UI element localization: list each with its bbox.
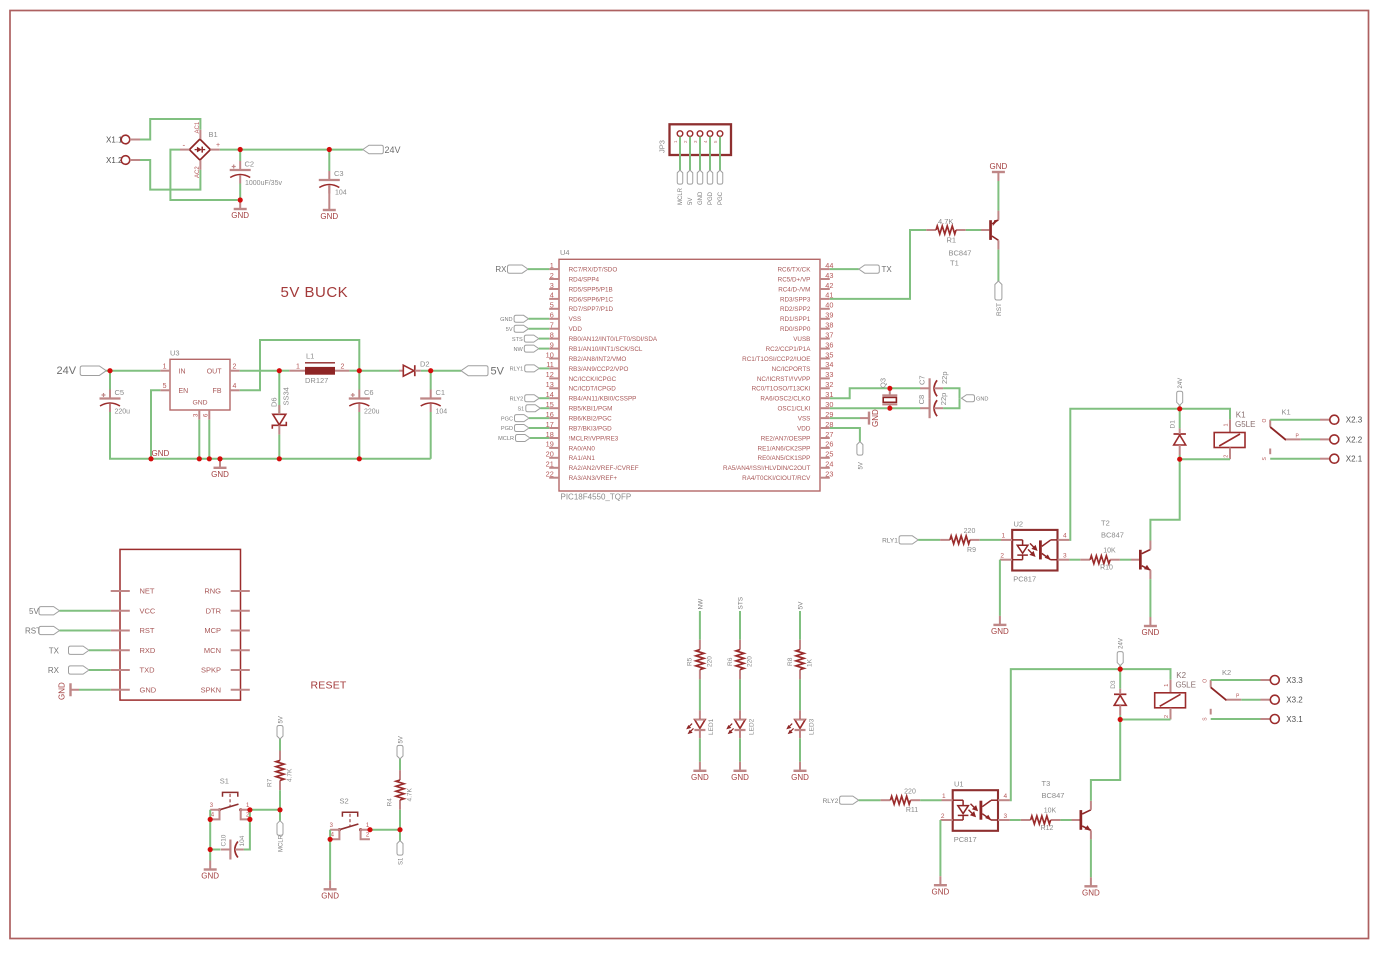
svg-text:LED1: LED1	[708, 718, 715, 735]
flag RLY2 bubble	[840, 796, 859, 804]
svg-text:S2: S2	[340, 796, 349, 805]
svg-text:RC4/D-/VM: RC4/D-/VM	[778, 286, 810, 293]
junction pin3/rail	[197, 456, 202, 461]
svg-text:IN: IN	[179, 368, 186, 375]
svg-text:R5: R5	[687, 657, 694, 666]
flag TX bubble	[859, 265, 880, 273]
svg-text:RD6/SPP6/P1C: RD6/SPP6/P1C	[569, 296, 614, 303]
resistor R10	[1080, 556, 1120, 564]
flag 5V bubble	[514, 325, 529, 332]
wire PGC flag to pin	[529, 417, 549, 419]
capacitor C7	[920, 378, 943, 398]
ground below T2	[1142, 617, 1160, 637]
wire 24V net bridge output	[220, 149, 363, 151]
svg-text:GND: GND	[192, 400, 207, 407]
transistor T2 (BC847)	[1131, 541, 1151, 580]
U4 pin 8 (RB0/AN12/INT0/LFT0/SDI/SDA)	[549, 338, 559, 340]
flag 5V above R7	[277, 726, 283, 740]
svg-text:RB6/KBI2/PGC: RB6/KBI2/PGC	[569, 416, 612, 423]
svg-text:GND: GND	[990, 162, 1008, 171]
optocoupler U1 body	[953, 790, 998, 831]
JP3 pad 3	[697, 131, 703, 137]
wire STS to R6	[739, 611, 741, 640]
wire crystal to C7	[890, 387, 921, 389]
wire TX to RXD	[89, 649, 111, 651]
svg-text:43: 43	[825, 271, 833, 280]
U4 pin 12 (NC/ICCK/ICPGC)	[549, 377, 559, 379]
capacitor C2 (polarized) plus sign	[232, 165, 236, 169]
LED LED2 emission arrows	[727, 724, 733, 734]
wire K2 P to X3.2	[1241, 699, 1260, 701]
capacitor C10	[221, 840, 244, 860]
wire D3 cathode	[1119, 669, 1121, 689]
wire S2 pins3-4 to ground	[329, 830, 331, 881]
svg-text:3: 3	[1063, 553, 1067, 560]
svg-text:MCN: MCN	[204, 646, 221, 655]
svg-text:PGD: PGD	[708, 191, 714, 205]
svg-text:2: 2	[1164, 715, 1170, 718]
junction C6/rail	[357, 456, 362, 461]
wire X1.1 to bridge AC1	[140, 119, 200, 140]
flag MCLR below JP3	[677, 170, 683, 184]
U3 pin 3 (GND)	[198, 410, 200, 420]
svg-text:PIC18F4550_TQFP: PIC18F4550_TQFP	[561, 493, 632, 502]
svg-text:PC817: PC817	[1013, 575, 1036, 584]
wire S1 to ground	[209, 850, 211, 861]
wire RLY2 flag to pin	[539, 397, 549, 399]
svg-text:12: 12	[546, 370, 554, 379]
svg-text:RLY1: RLY1	[510, 367, 524, 373]
bridge B1 pin AC1	[199, 130, 201, 139]
junction S1 pin4	[208, 817, 213, 822]
svg-text:R8: R8	[787, 657, 794, 666]
svg-text:-: -	[183, 141, 186, 150]
svg-text:42: 42	[825, 281, 833, 290]
svg-text:L1: L1	[306, 352, 314, 361]
svg-text:2: 2	[1224, 455, 1230, 458]
svg-text:2: 2	[1000, 553, 1004, 560]
svg-text:39: 39	[825, 311, 833, 320]
svg-text:8: 8	[550, 330, 554, 339]
wire K1 P to X2.2	[1301, 438, 1320, 440]
flag 24V buck bubble	[80, 366, 106, 376]
wire 5V to VCC	[60, 610, 111, 612]
svg-text:DR127: DR127	[305, 376, 328, 385]
svg-text:10K: 10K	[1044, 808, 1057, 815]
wire K1 S to X2.1	[1270, 458, 1320, 460]
ground below S2	[321, 880, 339, 900]
wire T2 emitter to ground	[1149, 579, 1151, 617]
wire K2 pin2 to rail	[1120, 719, 1170, 721]
svg-text:NW: NW	[513, 347, 523, 353]
U4 pin 6 (VSS)	[549, 318, 559, 320]
U4 pin 15 (RB5/KBI1/PGM)	[549, 407, 559, 409]
svg-text:VUSB: VUSB	[793, 336, 810, 343]
U4 pin 33 (NC/!ICRST!/!VVPP)	[820, 377, 830, 379]
ground below T3	[1082, 877, 1100, 897]
wire JP3 pin 2	[689, 137, 691, 171]
svg-text:R12: R12	[1041, 825, 1054, 832]
switch S2 right contact bracket (pins 1-2)	[361, 830, 370, 840]
svg-text:220u: 220u	[115, 409, 131, 416]
ground below C2	[231, 200, 249, 220]
resistor R7	[276, 751, 284, 791]
module pin MCN	[231, 649, 250, 651]
connector X3.1 pin	[1261, 718, 1271, 720]
svg-text:GND: GND	[152, 449, 170, 458]
svg-text:FB: FB	[213, 388, 222, 395]
svg-text:6: 6	[550, 311, 554, 320]
junction S2 pin4	[328, 837, 333, 842]
svg-text:22: 22	[546, 470, 554, 479]
svg-text:R4: R4	[387, 798, 394, 807]
svg-text:5V: 5V	[798, 601, 805, 610]
junction crystal bottom	[887, 406, 892, 411]
svg-text:25: 25	[825, 450, 833, 459]
flag 5V above R4	[397, 745, 403, 759]
ground below LED3	[791, 762, 809, 782]
wire U3 FB to L1 output	[240, 340, 360, 390]
svg-text:3: 3	[330, 823, 334, 829]
junction rail ground symbol	[217, 456, 222, 461]
transistor T1 (BC847, emitter up)	[981, 211, 999, 250]
svg-text:BC847: BC847	[1101, 531, 1124, 540]
module pin RNG	[231, 590, 250, 592]
U1 pin 1	[942, 799, 953, 801]
U4 pin 31 (RA6/OSC2/CLKO)	[820, 397, 830, 399]
wire C2 to ground node	[239, 184, 241, 201]
svg-text:D2: D2	[420, 360, 430, 369]
svg-text:T2: T2	[1101, 519, 1110, 528]
junction D1 / K1 pin2 / T2	[1177, 457, 1182, 462]
header JP3 body	[670, 124, 732, 155]
wire 24V to C2	[239, 150, 241, 162]
U4 pin 3 (RD5/SPP5/P1B)	[549, 288, 559, 290]
svg-text:STS: STS	[738, 596, 745, 609]
flag RST below T1	[995, 281, 1002, 300]
svg-text:RESET: RESET	[311, 679, 347, 691]
flag 5V below JP3	[687, 170, 693, 184]
U4 pin 38 (RD0/SPP0)	[820, 328, 830, 330]
svg-text:36: 36	[825, 340, 833, 349]
wire T3 emitter to ground	[1090, 839, 1092, 877]
wire S2 pin1 to S1 node	[370, 829, 400, 831]
svg-text:SS34: SS34	[281, 387, 290, 405]
svg-text:24V: 24V	[57, 365, 77, 377]
wire C3 to ground	[328, 185, 330, 201]
ground below LED1	[691, 762, 709, 782]
svg-text:2: 2	[233, 363, 237, 370]
svg-text:GND: GND	[1082, 889, 1100, 898]
svg-text:2: 2	[941, 813, 945, 820]
LED LED3 emission arrows	[787, 724, 793, 734]
junction 24V input / C5	[107, 368, 112, 373]
wire L1 stubs	[279, 370, 289, 372]
wire 5V to R8	[799, 611, 801, 640]
wire pin31 OSC2 to crystal	[830, 388, 887, 398]
wire JP3 pin 4	[709, 137, 711, 171]
svg-text:GND: GND	[691, 773, 709, 782]
U4 pin 34 (NC/ICPORTS)	[820, 367, 830, 369]
module pin SPKN	[231, 689, 250, 691]
svg-text:R7: R7	[267, 778, 274, 787]
svg-text:5V: 5V	[491, 366, 505, 378]
wire D1 anode to rail	[1179, 455, 1181, 459]
svg-text:5: 5	[550, 301, 554, 310]
capacitor C3	[319, 171, 340, 194]
svg-text:5V: 5V	[858, 462, 864, 469]
relay K1 contact P	[1286, 433, 1301, 439]
svg-text:RST: RST	[140, 626, 155, 635]
svg-text:5V: 5V	[688, 198, 694, 205]
svg-text:OUT: OUT	[207, 368, 223, 375]
svg-text:D1: D1	[1170, 420, 1177, 429]
svg-text:7: 7	[550, 321, 554, 330]
svg-text:3: 3	[1004, 813, 1008, 820]
svg-text:RC6/TX/CK: RC6/TX/CK	[778, 267, 812, 274]
svg-text:5V: 5V	[398, 736, 404, 743]
U4 pin 44 (RC6/TX/CK)	[820, 268, 830, 270]
svg-text:RD7/SPP7/P1D: RD7/SPP7/P1D	[569, 306, 614, 313]
bridge B1 pin AC2	[199, 160, 201, 170]
svg-text:RLY1: RLY1	[882, 538, 898, 545]
svg-text:RA6/OSC2/CLKO: RA6/OSC2/CLKO	[760, 396, 810, 403]
flag RX bubble	[508, 265, 529, 273]
connector X1.2 pad	[121, 156, 130, 165]
wire R5 to LED1	[699, 679, 701, 710]
wire K2 O to X3.3	[1211, 679, 1261, 681]
svg-text:K1: K1	[1282, 408, 1291, 417]
wire 5V flag to pin	[529, 328, 550, 330]
svg-text:RLY2: RLY2	[823, 798, 839, 805]
svg-text:S1: S1	[517, 406, 524, 412]
wire U3 pin6 to ground rail	[208, 420, 210, 459]
wire MCLR flag to pin	[530, 437, 549, 439]
diode D2	[399, 365, 421, 376]
U4 pin 7 (VDD)	[549, 328, 559, 330]
svg-text:C10: C10	[220, 834, 227, 846]
svg-text:GND: GND	[991, 627, 1009, 636]
svg-text:RB5/KBI1/PGM: RB5/KBI1/PGM	[569, 406, 613, 413]
JP3 pad 5	[717, 131, 723, 137]
relay coil K1	[1214, 419, 1245, 459]
module pin NET	[111, 590, 130, 592]
wire R9 to U2 pin1	[980, 539, 1001, 541]
optocoupler U2 body	[1012, 530, 1057, 571]
svg-text:+: +	[216, 142, 220, 149]
U3 pin 5 EN	[160, 389, 170, 391]
svg-text:4.7K: 4.7K	[407, 787, 414, 801]
wire JP3 pin 1	[679, 137, 681, 171]
flag RLY1 bubble	[899, 536, 918, 544]
wire pin41 RD3 to R1	[830, 230, 926, 299]
svg-text:GND: GND	[58, 682, 67, 700]
ground below S1	[201, 861, 219, 881]
svg-text:4: 4	[233, 383, 237, 390]
U1 internal LED	[953, 800, 969, 820]
flag S1 net below R4	[397, 841, 403, 856]
wire pin29 VSS to ground	[830, 417, 860, 419]
wire R1 to T1 base	[966, 229, 981, 231]
flag RST bubble	[39, 626, 60, 634]
svg-text:1: 1	[163, 363, 167, 370]
svg-text:4.7K: 4.7K	[938, 217, 953, 226]
module box body	[120, 549, 241, 700]
svg-text:O: O	[1262, 419, 1268, 423]
wire C7 to gnd flag	[943, 388, 959, 398]
wire 24V to U3 IN	[106, 370, 160, 372]
svg-text:TXD: TXD	[140, 666, 156, 675]
wire C8 to gnd flag	[943, 398, 959, 408]
wire junction to 24V flag	[1119, 666, 1121, 670]
svg-text:TX: TX	[49, 647, 60, 656]
svg-text:5V: 5V	[278, 716, 284, 723]
switch S1 left contact bracket (pins 3-4)	[210, 810, 219, 820]
U2 internal phototransistor	[1039, 540, 1058, 560]
wire D3 anode to rail	[1119, 715, 1121, 719]
junction L1 out / C6 / FB	[357, 368, 362, 373]
svg-text:R9: R9	[967, 547, 976, 554]
svg-text:R1: R1	[947, 236, 957, 245]
svg-text:2: 2	[550, 271, 554, 280]
ground below C3	[320, 201, 338, 221]
svg-text:S: S	[1203, 717, 1209, 721]
svg-text:GND: GND	[211, 470, 229, 479]
wire R10 to T2 base	[1120, 559, 1131, 561]
U2 internal LED	[1012, 540, 1028, 560]
connector X1.1 pin	[130, 139, 140, 141]
wire RLY2 to R11	[859, 799, 881, 801]
flag S1 bubble	[526, 405, 541, 412]
connector X3.3 pad	[1270, 676, 1279, 685]
svg-text:RA0/AN0: RA0/AN0	[569, 445, 596, 452]
U4 pin 14 (RB4/AN11/KBI0/CSSPP)	[549, 397, 559, 399]
svg-text:9: 9	[550, 340, 554, 349]
capacitor C6 (polarized) plus sign	[351, 393, 355, 397]
wire K1 O to X2.3	[1270, 419, 1320, 421]
U4 pin 4 (RD6/SPP6/P1C)	[549, 298, 559, 300]
U2 pin 4	[1058, 539, 1070, 541]
U2 pin 1	[1001, 539, 1012, 541]
svg-text:GND: GND	[1142, 628, 1160, 637]
switch S1 arm	[220, 804, 239, 810]
svg-text:GND: GND	[140, 685, 157, 694]
wire to C10	[210, 849, 220, 851]
U4 pin 5 (RD7/SPP7/P1D)	[549, 308, 559, 310]
junction S1 net node	[397, 827, 402, 832]
svg-text:3: 3	[210, 803, 214, 809]
svg-text:22p: 22p	[940, 371, 949, 384]
svg-text:20: 20	[546, 450, 554, 459]
svg-text:K2: K2	[1176, 671, 1186, 680]
flag 24V above K2	[1117, 652, 1123, 666]
svg-text:104: 104	[335, 190, 347, 197]
module pin RST	[111, 630, 130, 632]
svg-text:S1: S1	[220, 777, 229, 786]
wire pin44 to TX	[830, 268, 859, 270]
bridge B1 pin plus	[210, 149, 219, 151]
svg-text:U3: U3	[170, 349, 180, 358]
ground below U1	[932, 876, 950, 896]
svg-text:X3.3: X3.3	[1286, 676, 1303, 685]
connector X1.2 pin	[130, 159, 140, 161]
svg-text:GND: GND	[320, 212, 338, 221]
U3 pin 6 (GND)	[208, 410, 210, 420]
diode D3	[1114, 689, 1126, 716]
svg-text:1: 1	[550, 261, 554, 270]
wire RX to pin1	[528, 268, 549, 270]
switch S1 right contact bracket (pins 1-2)	[241, 810, 250, 820]
svg-text:RC0/T1OSO/T13CKI: RC0/T1OSO/T13CKI	[752, 386, 811, 393]
wire LED1 to ground	[699, 738, 701, 762]
U4 pin 11 (RB3/AN9/CCP2/VPO)	[549, 367, 559, 369]
svg-text:RA2/AN2/VREF-/CVREF: RA2/AN2/VREF-/CVREF	[569, 465, 639, 472]
U2 internal light arrows	[1028, 543, 1037, 556]
junction 24V / D diode / K1	[1177, 406, 1182, 411]
flag PGD bubble	[515, 425, 530, 432]
svg-text:RB0/AN12/INT0/LFT0/SDI/SDA: RB0/AN12/INT0/LFT0/SDI/SDA	[569, 336, 658, 343]
svg-text:TX: TX	[882, 265, 893, 274]
U4 pin 18 (!MCLR!/VPP/RE3)	[549, 437, 559, 439]
svg-text:RST: RST	[996, 303, 1003, 316]
svg-text:10K: 10K	[1103, 547, 1116, 554]
wire RLY1 flag to pin	[539, 367, 549, 369]
ground below buck rail	[211, 459, 229, 479]
relay coil K2	[1155, 680, 1186, 720]
LED LED3	[795, 710, 806, 738]
junction pin6/rail	[207, 456, 212, 461]
U4 pin 28 (VDD)	[820, 427, 830, 429]
U4 pin 39 (RD1/SPP1)	[820, 318, 830, 320]
wire pin30 OSC1 to crystal	[830, 407, 887, 409]
wire NW to R5	[699, 611, 701, 640]
U4 pin 23 (RA4/T0CKI/CIOUT/RCV)	[820, 477, 830, 479]
wire crystal to C8	[890, 407, 921, 409]
svg-text:RB7/BKI3/PGD: RB7/BKI3/PGD	[569, 425, 612, 432]
svg-text:21: 21	[546, 460, 554, 469]
wire U2 pin4 to 24V rail	[1069, 409, 1179, 540]
U1 pin 2	[940, 819, 952, 821]
JP3 pad 1	[677, 131, 683, 137]
wire RX to TXD	[89, 669, 111, 671]
wire D2 to 5V flag	[421, 370, 461, 372]
U2 pin 3	[1058, 559, 1070, 561]
wire T3 collector to relay	[1091, 720, 1120, 801]
crystal Q3	[882, 388, 897, 408]
flag GND below JP3	[697, 170, 703, 184]
svg-text:PC817: PC817	[954, 835, 977, 844]
wire GND flag to pin	[529, 318, 550, 320]
U4 pin 29 (VSS)	[820, 417, 830, 419]
svg-text:R6: R6	[727, 657, 734, 666]
connector X2.1 pin	[1320, 458, 1330, 460]
switch S2 plunger dashed	[349, 814, 351, 827]
U4 pin 37 (VUSB)	[820, 338, 830, 340]
switch S2 left contact bracket (pins 3-4)	[330, 830, 339, 840]
svg-text:X3.1: X3.1	[1286, 715, 1303, 724]
svg-text:4: 4	[550, 291, 554, 300]
svg-text:NC/ICDT/ICPGD: NC/ICDT/ICPGD	[569, 386, 617, 393]
svg-text:GND: GND	[871, 409, 880, 427]
U4 pin 25 (RE0/AN5/CK1SPP)	[820, 457, 830, 459]
wire pin28 VDD to 5V flag	[830, 428, 860, 442]
wire GND to module GND pin	[79, 689, 111, 691]
svg-text:D3: D3	[1110, 680, 1117, 689]
wire D1 cathode	[1179, 409, 1181, 429]
connector X2.2 pad	[1330, 435, 1339, 444]
wire S1 flag to pin	[540, 407, 549, 409]
wire R12 to T3 base	[1060, 819, 1071, 821]
